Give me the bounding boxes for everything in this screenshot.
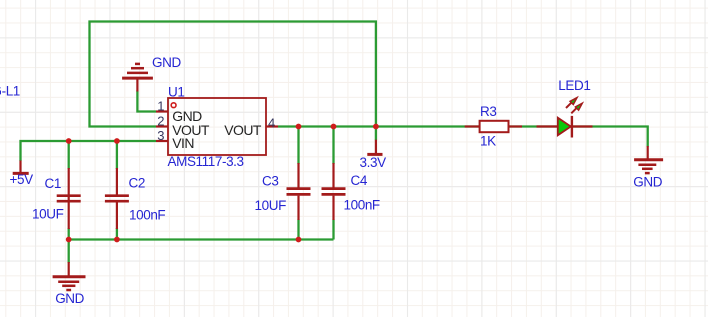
svg-text:1K: 1K bbox=[480, 134, 496, 149]
capacitor C2 bbox=[105, 168, 129, 229]
svg-text:GND: GND bbox=[633, 174, 662, 189]
pin number 3 bbox=[157, 128, 164, 143]
wire C4 bottom drop bbox=[332, 220, 334, 240]
net name +5V bbox=[10, 172, 34, 187]
refdes C4 bbox=[351, 173, 368, 188]
value 100nF (C2) bbox=[129, 208, 165, 223]
svg-text:AMS1117-3.3: AMS1117-3.3 bbox=[168, 154, 244, 169]
svg-text:R3: R3 bbox=[480, 104, 496, 119]
svg-text:4: 4 bbox=[268, 115, 275, 130]
value 100nF (C4) bbox=[344, 197, 380, 212]
resistor R3 bbox=[465, 121, 522, 132]
capacitor C1 bbox=[57, 168, 81, 229]
power flag 3.3V bbox=[367, 140, 382, 155]
junction loop/rail bbox=[373, 124, 379, 130]
pin name VOUT (left) bbox=[172, 122, 210, 138]
wire C4 top drop bbox=[332, 127, 334, 165]
junction C4 top bbox=[331, 124, 337, 130]
wire C2 top drop bbox=[116, 141, 118, 169]
pin1 marker dot bbox=[171, 103, 176, 108]
wire GND symbol to U1 pin1 bbox=[137, 91, 156, 112]
wire C2 bottom drop bbox=[116, 228, 118, 241]
svg-text:LED1: LED1 bbox=[558, 78, 590, 93]
svg-text:C4: C4 bbox=[351, 173, 368, 188]
power flag +5V bbox=[13, 161, 29, 174]
value 1K bbox=[480, 134, 496, 149]
wire output rail: pin4 to right GND bbox=[278, 127, 648, 147]
refdes LED1 bbox=[558, 78, 590, 93]
svg-text:C3: C3 bbox=[262, 173, 278, 188]
svg-text:100nF: 100nF bbox=[129, 208, 165, 223]
ground GND above U1 (pointing up) bbox=[122, 64, 153, 92]
svg-text:2: 2 bbox=[157, 114, 164, 129]
junction C3 top bbox=[296, 124, 302, 130]
svg-text:10UF: 10UF bbox=[32, 206, 64, 221]
wire VOUT loop: pin2 left, up, across top, down to output rail bbox=[90, 22, 376, 127]
svg-text:3.3V: 3.3V bbox=[360, 155, 387, 170]
refdes R3 bbox=[480, 104, 496, 119]
pin number 1 bbox=[157, 99, 164, 114]
svg-text:100nF: 100nF bbox=[344, 197, 380, 212]
pin 2 stub bbox=[156, 125, 168, 127]
pin 1 stub bbox=[156, 110, 168, 112]
refdes U1 bbox=[168, 85, 184, 100]
pin name VOUT (right) bbox=[224, 122, 262, 138]
junction C1 bottom / gnd bbox=[66, 237, 72, 243]
capacitor C3 bbox=[287, 163, 311, 220]
ground GND right bbox=[634, 146, 663, 173]
wire GND drop below C1 bbox=[68, 240, 70, 264]
refdes C1 bbox=[45, 176, 61, 191]
junction C1 top bbox=[66, 138, 72, 144]
junction C2 top bbox=[114, 138, 120, 144]
net label S-L1 (clipped at left edge) bbox=[0, 83, 20, 98]
IC U1 AMS1117-3.3 body bbox=[168, 98, 266, 155]
svg-text:GND: GND bbox=[152, 55, 181, 70]
svg-text:VOUT: VOUT bbox=[224, 122, 262, 138]
svg-text:U1: U1 bbox=[168, 85, 184, 100]
pin number 4 bbox=[268, 115, 275, 130]
refdes C2 bbox=[129, 175, 145, 190]
svg-text:3: 3 bbox=[157, 128, 164, 143]
wire C1 bottom drop bbox=[68, 228, 70, 241]
junction C3 bottom bbox=[296, 237, 302, 243]
capacitor C4 bbox=[322, 163, 346, 220]
svg-text:VIN: VIN bbox=[172, 135, 194, 151]
svg-text:1: 1 bbox=[157, 99, 164, 114]
svg-text:C2: C2 bbox=[129, 175, 145, 190]
net name 3.3V bbox=[360, 155, 387, 170]
value AMS1117-3.3 bbox=[168, 154, 244, 169]
wire bottom ground rail bbox=[69, 238, 334, 240]
net name GND (right) bbox=[633, 174, 662, 189]
refdes C3 bbox=[262, 173, 278, 188]
pin 4 stub bbox=[266, 125, 278, 127]
svg-text:C1: C1 bbox=[45, 176, 61, 191]
svg-text:G-L1: G-L1 bbox=[0, 83, 20, 98]
LED LED1 bbox=[537, 98, 593, 138]
net name GND (below C1) bbox=[55, 291, 84, 306]
pin 3 stub bbox=[156, 140, 168, 142]
wire C1 top drop bbox=[68, 141, 70, 169]
value 10UF (C3) bbox=[255, 198, 287, 213]
pin number 2 bbox=[157, 114, 164, 129]
svg-text:GND: GND bbox=[55, 291, 84, 306]
wire +5V rail into U1 pin3 (VIN) bbox=[21, 141, 157, 161]
ground GND below C1 bbox=[53, 262, 86, 290]
svg-text:10UF: 10UF bbox=[255, 198, 287, 213]
net name GND (above U1) bbox=[152, 55, 181, 70]
wire C3 top drop bbox=[297, 127, 299, 165]
svg-text:+5V: +5V bbox=[10, 172, 34, 187]
wire 3.3V stub below junction bbox=[375, 127, 377, 141]
junction C2 bottom bbox=[114, 237, 120, 243]
wire C3 bottom drop bbox=[297, 220, 299, 241]
value 10UF (C1) bbox=[32, 206, 64, 221]
pin name GND bbox=[172, 108, 202, 124]
pin name VIN bbox=[172, 135, 194, 151]
